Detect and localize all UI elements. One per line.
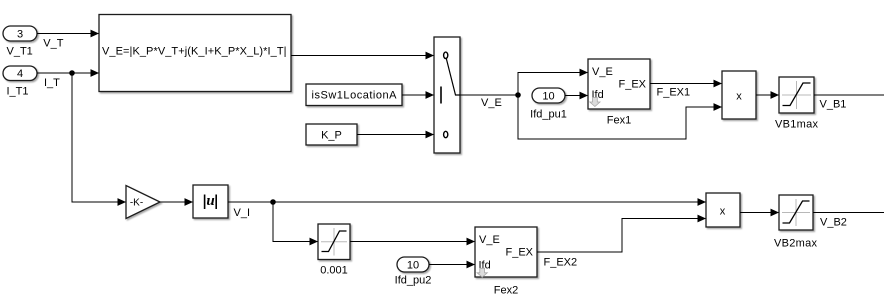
svg-text:V_E: V_E bbox=[479, 234, 500, 246]
abs block |u| bbox=[193, 185, 228, 218]
switch block bbox=[434, 37, 460, 153]
svg-text:x: x bbox=[720, 205, 726, 217]
product x2 bbox=[706, 193, 740, 227]
wire x2 to VB2max bbox=[740, 212, 779, 214]
node junction V_I bbox=[270, 199, 276, 205]
wire I_T branch to gain bbox=[72, 73, 126, 202]
wire V_B1 bbox=[814, 95, 884, 111]
Fcn block V_E expression bbox=[99, 15, 291, 92]
svg-text:x: x bbox=[736, 91, 742, 103]
svg-text:V_T: V_T bbox=[43, 37, 63, 49]
constant K_P bbox=[306, 124, 357, 145]
constant isSw1LocationA bbox=[306, 84, 402, 106]
wire Ifd_pu2 to Fex2 bbox=[429, 264, 475, 266]
wire x1 to VB1max bbox=[756, 94, 779, 96]
svg-text:10: 10 bbox=[542, 91, 554, 103]
node junction on I_T bbox=[69, 70, 75, 76]
svg-text:V_T1: V_T1 bbox=[7, 46, 33, 58]
svg-text:V_E=|K_P*V_T+j(K_I+K_P*X_L)*I_: V_E=|K_P*V_T+j(K_I+K_P*X_L)*I_T| bbox=[102, 45, 287, 57]
svg-text:10: 10 bbox=[407, 259, 419, 271]
wire V_E to Fex1 bbox=[518, 73, 588, 96]
wire F_EX2 bbox=[537, 219, 706, 269]
wire V_I to saturation 0.001 bbox=[273, 202, 318, 242]
wire V_T bbox=[37, 34, 99, 50]
saturation VB1max bbox=[775, 77, 819, 131]
svg-text:0.001: 0.001 bbox=[320, 265, 348, 277]
wire V_E feedback to product x1 bbox=[518, 95, 722, 139]
svg-text:V_I: V_I bbox=[234, 207, 251, 219]
saturation 0.001 bbox=[318, 224, 350, 277]
svg-text:K_P: K_P bbox=[321, 130, 342, 142]
inport 4 I_T1 bbox=[3, 66, 37, 98]
wire 0.001 to Fex2 bbox=[350, 241, 475, 243]
svg-text:Ifd_pu1: Ifd_pu1 bbox=[530, 109, 567, 121]
svg-text:u: u bbox=[206, 193, 214, 209]
constant Ifd_pu2 bbox=[395, 257, 432, 287]
svg-text:I_T1: I_T1 bbox=[7, 86, 29, 98]
svg-text:Fex2: Fex2 bbox=[494, 285, 518, 297]
svg-text:V_B1: V_B1 bbox=[820, 99, 847, 111]
wire V_B2 bbox=[813, 213, 884, 229]
wire Fcn to switch bbox=[291, 55, 434, 57]
svg-text:F_EX2: F_EX2 bbox=[544, 257, 578, 269]
svg-text:VB2max: VB2max bbox=[774, 237, 818, 249]
wire isSw1LocationA to switch bbox=[402, 94, 434, 96]
svg-text:V_E: V_E bbox=[592, 66, 613, 78]
wire Ifd_pu1 to Fex1 bbox=[565, 95, 588, 97]
svg-text:F_EX: F_EX bbox=[505, 247, 533, 259]
wire gain to abs bbox=[160, 201, 193, 203]
svg-text:V_B2: V_B2 bbox=[820, 216, 847, 228]
subsystem Fex2 bbox=[475, 227, 537, 297]
saturation VB2max bbox=[774, 195, 818, 249]
svg-text:I_T: I_T bbox=[44, 77, 60, 89]
svg-text:VB1max: VB1max bbox=[775, 119, 819, 131]
subsystem Fex1 bbox=[588, 59, 650, 127]
wire V_I bbox=[228, 202, 706, 219]
inport 3 V_T1 bbox=[3, 26, 37, 58]
wire V_E bbox=[460, 95, 518, 109]
svg-text:-K-: -K- bbox=[130, 198, 143, 209]
svg-text:F_EX1: F_EX1 bbox=[657, 87, 691, 99]
svg-text:V_E: V_E bbox=[481, 97, 502, 109]
wire I_T bbox=[37, 73, 99, 89]
svg-text:F_EX: F_EX bbox=[618, 79, 646, 91]
constant Ifd_pu1 bbox=[530, 88, 567, 121]
product x1 bbox=[722, 71, 756, 119]
svg-text:3: 3 bbox=[17, 29, 23, 41]
svg-text:Fex1: Fex1 bbox=[607, 115, 631, 127]
svg-text:Ifd_pu2: Ifd_pu2 bbox=[395, 275, 432, 287]
node junction V_E bbox=[515, 92, 521, 98]
svg-text:isSw1LocationA: isSw1LocationA bbox=[312, 90, 398, 102]
wire F_EX1 bbox=[650, 84, 722, 99]
svg-text:4: 4 bbox=[17, 68, 23, 80]
gain -K- bbox=[126, 186, 160, 219]
wire K_P to switch bbox=[357, 134, 434, 136]
